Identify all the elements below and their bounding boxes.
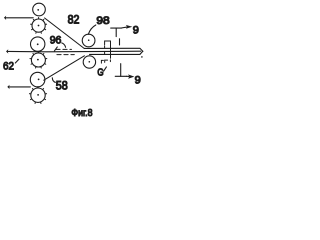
dashed guide line lower (near 96) <box>57 54 74 56</box>
roller R2 (lower merge roller) <box>83 56 95 68</box>
roller R1 axle dot <box>88 39 90 41</box>
section arrow 9 (bottom) <box>115 64 134 79</box>
wire D2 (web from bottom pair up to merge roller, labelled 58) <box>44 56 85 80</box>
web arrow A1 (top pair exit, pointing left) <box>6 17 34 19</box>
wire middle web with arrow A2 (middle pair exit, pointing left) <box>8 50 141 53</box>
wire band bottom line <box>90 51 143 54</box>
dashed guide line upper (near 96) <box>56 48 72 50</box>
roller M1 axle dot <box>37 43 39 45</box>
leader for 96 (hook) <box>62 43 66 47</box>
roller T1 (top pair upper roller) <box>33 3 46 16</box>
svg-text:98: 98 <box>96 15 109 27</box>
leader for 98 <box>88 25 96 34</box>
roller B1 axle dot <box>38 79 40 81</box>
svg-text:62: 62 <box>3 61 14 73</box>
svg-text:G: G <box>97 67 103 78</box>
svg-text:9: 9 <box>133 24 139 36</box>
leader for G <box>104 67 107 71</box>
roller B1 (bottom pair upper roller) <box>30 72 45 87</box>
roller T2 (top pair lower knurled roller) <box>30 17 47 33</box>
svg-text:9: 9 <box>135 75 141 87</box>
roller B2 (bottom pair lower knurled roller) <box>29 86 47 104</box>
section arrow 9 (top) <box>111 25 133 45</box>
clamp G (dashed gripper across band) <box>101 41 110 63</box>
svg-text:Фиг.8: Фиг.8 <box>71 107 92 119</box>
roller M1 (middle pair upper roller) <box>31 37 45 51</box>
leader for 58 <box>52 78 55 83</box>
leader for 62 <box>15 59 19 63</box>
svg-text:96: 96 <box>50 34 62 46</box>
wire D1 (web from top pair down to merge nip, labelled 82) <box>45 18 85 49</box>
roller T1 axle dot <box>37 9 39 11</box>
leader tick for 96 <box>54 47 57 51</box>
roller R2 axle dot <box>89 61 91 63</box>
svg-text:82: 82 <box>68 14 80 26</box>
roller R1 / 98 (upper merge roller) <box>82 34 95 47</box>
web arrow A3 (bottom pair exit, pointing left) <box>9 86 30 88</box>
stray dot right edge <box>141 56 143 58</box>
wire band top line <box>84 48 143 51</box>
svg-text:58: 58 <box>56 79 68 93</box>
roller M2 (middle pair lower knurled roller) <box>30 51 48 68</box>
